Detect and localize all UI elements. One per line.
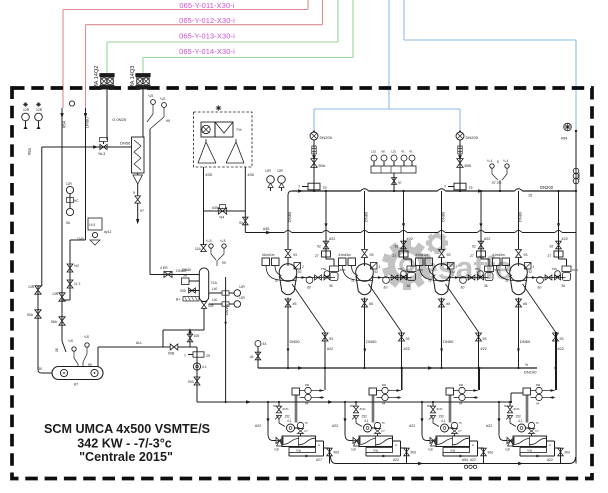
svg-text:92D: 92D — [180, 289, 187, 293]
svg-text:#5: #5 — [523, 302, 527, 306]
svg-text:#1%: #1% — [572, 268, 578, 272]
svg-text:12R: 12R — [277, 169, 284, 173]
svg-text:90d: 90d — [565, 451, 571, 455]
svg-text:99: 99 — [166, 119, 170, 123]
svg-text:h7: h7 — [305, 429, 309, 433]
svg-text:#22: #22 — [558, 347, 564, 351]
svg-text:#LL: #LL — [136, 341, 142, 345]
svg-text:DN80: DN80 — [85, 117, 90, 128]
svg-text:12R: 12R — [239, 296, 246, 300]
svg-text:DN200: DN200 — [540, 185, 554, 190]
svg-text:#22: #22 — [470, 458, 476, 462]
svg-text:27: 27 — [548, 254, 552, 258]
svg-text:DN80: DN80 — [364, 211, 369, 222]
svg-text:¼.4: ¼.4 — [487, 159, 493, 163]
svg-text:#54: #54 — [62, 120, 67, 128]
svg-text:93: 93 — [293, 253, 297, 257]
svg-text:90d: 90d — [488, 451, 494, 455]
svg-text:%2: %2 — [74, 264, 79, 268]
svg-text:A8: A8 — [381, 150, 385, 154]
svg-text:97: 97 — [398, 181, 402, 185]
svg-text:¼S: ¼S — [160, 97, 166, 101]
svg-text:#22: #22 — [255, 424, 261, 428]
svg-text:04: 04 — [459, 402, 463, 406]
svg-text:12R: 12R — [23, 108, 30, 112]
svg-text:12R: 12R — [36, 108, 43, 112]
svg-text:B9A: B9A — [319, 164, 326, 168]
svg-text:90C: 90C — [188, 380, 195, 384]
svg-text:DN50: DN50 — [366, 339, 377, 344]
svg-text:T50: T50 — [321, 267, 327, 271]
svg-text:152: 152 — [285, 415, 291, 419]
svg-text:B+: B+ — [176, 298, 180, 302]
svg-text:12R: 12R — [239, 285, 246, 289]
svg-text:4 ER: 4 ER — [160, 266, 168, 270]
svg-text:DN100: DN100 — [524, 370, 537, 375]
svg-text:36: 36 — [562, 284, 566, 288]
svg-text:%4: %4 — [219, 216, 224, 220]
svg-text:#5: #5 — [369, 302, 373, 306]
svg-text:125: 125 — [391, 150, 396, 154]
svg-text:96A: 96A — [51, 320, 58, 324]
svg-text:esaffe: esaffe — [420, 250, 513, 286]
svg-text:4.1: 4.1 — [441, 419, 446, 423]
svg-text:¼9: ¼9 — [351, 448, 356, 452]
svg-text:DN80: DN80 — [441, 211, 446, 222]
svg-text:4.1: 4.1 — [518, 419, 523, 423]
svg-text:DR: DR — [536, 383, 540, 387]
svg-text:93: 93 — [370, 253, 374, 257]
svg-text:#y12: #y12 — [104, 230, 111, 234]
svg-text:L40: L40 — [212, 298, 218, 302]
svg-text:97: 97 — [140, 209, 144, 213]
svg-text:MA 14Q3: MA 14Q3 — [130, 66, 136, 89]
svg-text:¼S: ¼S — [148, 94, 154, 98]
svg-text:#22: #22 — [327, 347, 333, 351]
svg-text:8: 8 — [497, 160, 499, 164]
svg-text:¼.5: ¼.5 — [206, 239, 212, 243]
svg-text:92: 92 — [529, 270, 533, 274]
svg-text:#27: #27 — [316, 458, 322, 462]
svg-text:89B: 89B — [465, 164, 472, 168]
svg-text:#1: #1 — [250, 355, 254, 359]
svg-text:h7: h7 — [382, 429, 386, 433]
svg-text:04: 04 — [305, 402, 309, 406]
svg-text:7h: 7h — [305, 421, 309, 425]
svg-text:14.9: 14.9 — [89, 223, 95, 227]
svg-text:04: 04 — [536, 402, 540, 406]
svg-text:7%: 7% — [236, 128, 242, 132]
svg-text:¼S: ¼S — [68, 339, 74, 343]
svg-text:4.1: 4.1 — [202, 365, 207, 369]
svg-text:9%: 9% — [273, 404, 278, 408]
svg-text:Y%: Y% — [373, 449, 378, 453]
svg-text:G 0N25: G 0N25 — [112, 117, 127, 122]
svg-text:¼S: ¼S — [84, 335, 90, 339]
svg-text:2: 2 — [533, 265, 535, 269]
svg-text:DN80: DN80 — [287, 211, 292, 222]
svg-text:125: 125 — [371, 150, 376, 154]
svg-text:27: 27 — [315, 254, 319, 258]
svg-text:152: 152 — [439, 415, 445, 419]
svg-text:DN50: DN50 — [520, 339, 531, 344]
svg-text:9%: 9% — [350, 404, 355, 408]
svg-text:15: 15 — [528, 194, 532, 198]
svg-text:87: 87 — [74, 383, 78, 387]
svg-text:"Centrale 2015": "Centrale 2015" — [79, 450, 173, 464]
svg-text:92: 92 — [550, 245, 554, 249]
svg-text:t3: t3 — [352, 279, 355, 283]
svg-text:#1%: #1% — [437, 407, 443, 411]
svg-text:065-Y-012-X30-i: 065-Y-012-X30-i — [179, 16, 235, 25]
svg-text:93: 93 — [329, 337, 333, 341]
svg-text:9%: 9% — [427, 404, 432, 408]
svg-text:T50: T50 — [552, 267, 558, 271]
svg-text:#22: #22 — [332, 424, 338, 428]
svg-text:Y%: Y% — [450, 449, 455, 453]
svg-text:12R: 12R — [66, 182, 73, 186]
svg-text:2: 2 — [302, 265, 304, 269]
svg-text:#35: #35 — [206, 173, 212, 177]
svg-text:#35: #35 — [263, 227, 269, 231]
svg-text:#5: #5 — [293, 302, 297, 306]
svg-text:¼9: ¼9 — [428, 448, 433, 452]
svg-text:75: 75 — [469, 186, 473, 190]
svg-text:97 2%: 97 2% — [492, 181, 501, 185]
svg-text:2: 2 — [379, 265, 381, 269]
svg-text:93: 93 — [560, 337, 564, 341]
svg-text:90B: 90B — [168, 352, 175, 356]
svg-text:L40: L40 — [212, 287, 218, 291]
svg-text:¼.4: ¼.4 — [503, 159, 509, 163]
svg-text:71A: 71A — [211, 281, 218, 285]
svg-text:#1%: #1% — [340, 268, 346, 272]
svg-text:¼9: ¼9 — [274, 448, 279, 452]
svg-text:7h: 7h — [459, 421, 463, 425]
svg-text:9: 9 — [133, 191, 135, 195]
svg-text:DN80: DN80 — [182, 268, 191, 272]
svg-text:90A: 90A — [27, 313, 34, 317]
svg-text:#1m#1m: #1m#1m — [339, 253, 352, 257]
svg-text:13R: 13R — [28, 285, 35, 289]
svg-text:#22: #22 — [329, 237, 335, 241]
svg-text:#22: #22 — [393, 458, 399, 462]
svg-text:#22: #22 — [547, 458, 553, 462]
svg-text:MA 14Q2: MA 14Q2 — [94, 66, 100, 89]
svg-text:#22: #22 — [484, 237, 490, 241]
svg-text:04: 04 — [382, 402, 386, 406]
svg-text:92: 92 — [375, 270, 379, 274]
svg-text:#1m#1m: #1m#1m — [262, 253, 275, 257]
svg-text:92: 92 — [317, 245, 321, 249]
svg-text:43: 43 — [409, 150, 413, 154]
svg-text:#54: #54 — [561, 137, 567, 141]
svg-text:#1%: #1% — [283, 407, 289, 411]
svg-text:&0: &0 — [538, 286, 542, 290]
svg-text:93: 93 — [406, 337, 410, 341]
svg-text:Y%: Y% — [527, 449, 532, 453]
svg-text:43: 43 — [401, 150, 405, 154]
svg-text:#22: #22 — [562, 237, 568, 241]
svg-text:&0: &0 — [307, 286, 311, 290]
svg-text:DN200: DN200 — [320, 135, 333, 140]
svg-text:#5: #5 — [446, 302, 450, 306]
svg-text:4.1: 4.1 — [364, 419, 369, 423]
svg-text:36: 36 — [329, 284, 333, 288]
svg-text:11A: 11A — [195, 247, 202, 251]
svg-text:DN50: DN50 — [120, 141, 131, 146]
svg-text:T: T — [298, 185, 300, 189]
svg-text:11 2: 11 2 — [74, 282, 80, 286]
svg-text:#22: #22 — [404, 347, 410, 351]
svg-text:7h: 7h — [536, 421, 540, 425]
svg-text:7h: 7h — [382, 421, 386, 425]
svg-text:90d: 90d — [411, 451, 417, 455]
svg-text:OOO: OOO — [577, 172, 581, 180]
svg-text:93: 93 — [483, 337, 487, 341]
svg-text:#54: #54 — [27, 147, 32, 155]
svg-text:#22: #22 — [481, 347, 487, 351]
svg-text:92: 92 — [239, 221, 243, 225]
svg-text:#1%: #1% — [514, 407, 520, 411]
svg-text:#54: #54 — [462, 458, 468, 462]
svg-text:0E: 0E — [55, 348, 59, 352]
svg-text:HC: HC — [74, 199, 79, 203]
svg-text:&0: &0 — [461, 286, 465, 290]
svg-text:T: T — [444, 185, 446, 189]
svg-text:99: 99 — [222, 261, 226, 265]
svg-text:30: 30 — [38, 367, 42, 371]
svg-text:93: 93 — [524, 253, 528, 257]
svg-text:90d: 90d — [334, 451, 340, 455]
svg-text:¼9: ¼9 — [505, 448, 510, 452]
svg-text:065-Y-011-X30-i: 065-Y-011-X30-i — [179, 1, 234, 10]
svg-text:92: 92 — [472, 245, 476, 249]
svg-text:h7: h7 — [459, 429, 463, 433]
svg-text:Y%: Y% — [296, 449, 301, 453]
svg-text:#22: #22 — [486, 424, 492, 428]
svg-text:%: % — [525, 363, 528, 367]
svg-text:342 KW - -7/-3°c: 342 KW - -7/-3°c — [77, 437, 172, 451]
svg-text:75: 75 — [323, 186, 327, 190]
svg-text:DN50: DN50 — [290, 339, 301, 344]
svg-text:DN100: DN100 — [225, 304, 229, 315]
svg-text:44: 44 — [263, 342, 267, 346]
svg-text:&0: &0 — [384, 286, 388, 290]
svg-text:T: T — [184, 354, 186, 358]
svg-text:DR: DR — [382, 383, 386, 387]
svg-text:065-Y-013-X30-i: 065-Y-013-X30-i — [179, 32, 235, 41]
svg-text:DN200: DN200 — [466, 135, 479, 140]
svg-text:DR: DR — [305, 383, 309, 387]
svg-text:152: 152 — [362, 415, 368, 419]
svg-text:105: 105 — [194, 334, 200, 338]
svg-text:#1%: #1% — [360, 407, 366, 411]
svg-text:#35: #35 — [212, 206, 218, 210]
svg-text:DN50: DN50 — [443, 339, 454, 344]
svg-text:#22: #22 — [409, 424, 415, 428]
svg-text:SCM UMCA 4x500 VSMTE/S: SCM UMCA 4x500 VSMTE/S — [44, 422, 210, 436]
svg-text:h7: h7 — [536, 429, 540, 433]
svg-text:29: 29 — [206, 354, 210, 358]
svg-text:DN80: DN80 — [518, 211, 523, 222]
svg-text:12R: 12R — [265, 169, 272, 173]
svg-text:9%: 9% — [504, 404, 509, 408]
svg-text:92E: 92E — [208, 304, 215, 308]
svg-text:92: 92 — [298, 270, 302, 274]
svg-text:#35: #35 — [248, 173, 254, 177]
svg-text:4.1: 4.1 — [287, 419, 292, 423]
svg-text:¼.5: ¼.5 — [220, 239, 226, 243]
svg-text:DR: DR — [459, 383, 463, 387]
svg-text:99: 99 — [88, 363, 92, 367]
svg-text:065-Y-014-X30-i: 065-Y-014-X30-i — [179, 47, 235, 56]
svg-text:152: 152 — [516, 415, 522, 419]
svg-text:%L3: %L3 — [98, 152, 105, 156]
svg-text:13R: 13R — [52, 292, 59, 296]
svg-text:t3: t3 — [275, 279, 278, 283]
